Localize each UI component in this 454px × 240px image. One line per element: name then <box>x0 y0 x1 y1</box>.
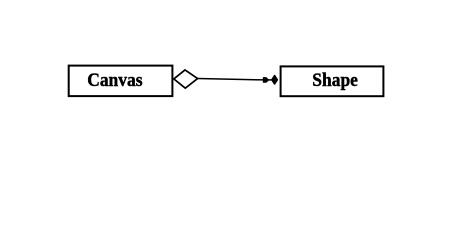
svg-text:Canvas: Canvas <box>87 71 142 91</box>
navigability arrowhead (filled) <box>263 78 269 83</box>
association wire from diamond to arrowhead <box>198 79 264 80</box>
aggregation diamond (open) at Canvas end <box>174 70 198 88</box>
multiplicity ball (filled, many) at Shape end <box>272 76 277 84</box>
class box Shape <box>281 66 384 96</box>
svg-text:Shape: Shape <box>312 71 358 91</box>
wire from arrowhead to multiplicity ball <box>268 79 273 81</box>
class box Canvas <box>69 66 173 97</box>
